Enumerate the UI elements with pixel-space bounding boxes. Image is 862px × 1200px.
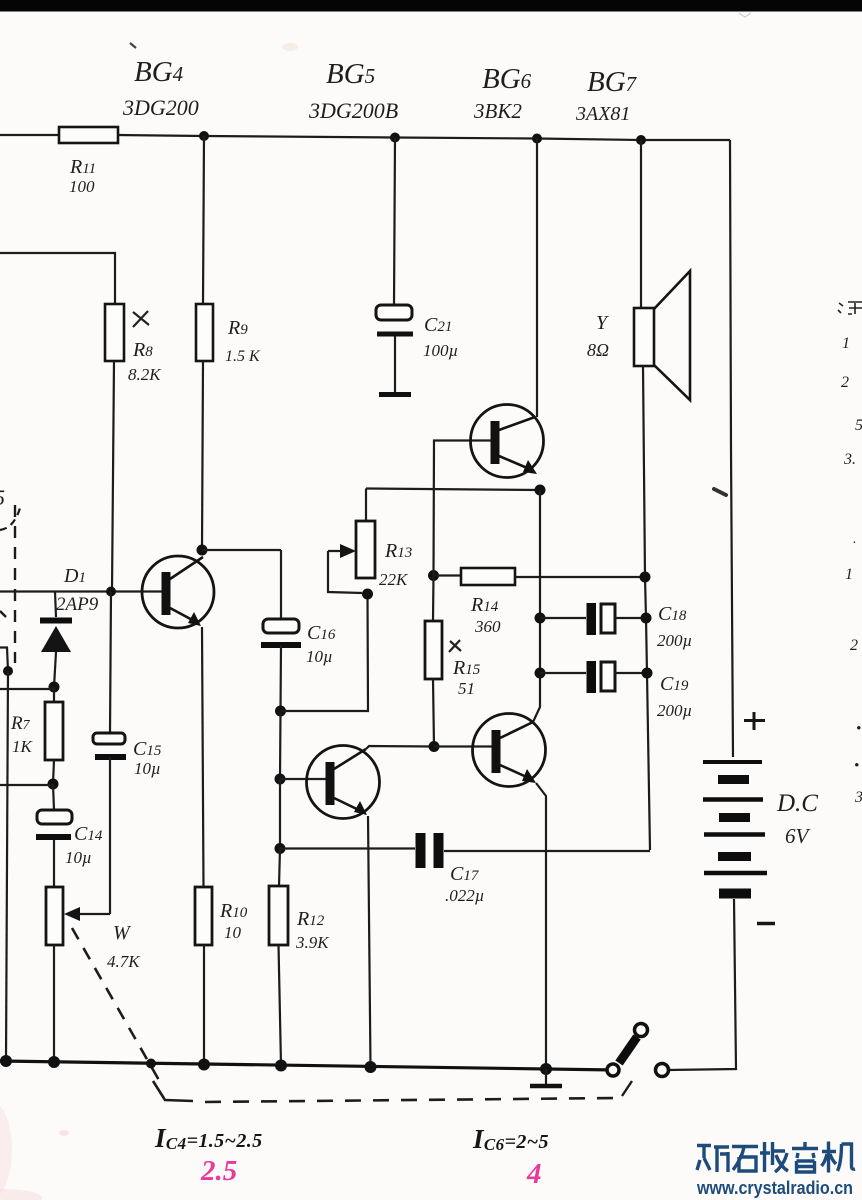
wire: +V top rail from R11 to right corner bbox=[118, 135, 730, 140]
label Y (speaker) bbox=[596, 312, 609, 334]
battery + sign bbox=[744, 712, 765, 730]
svg-text:2: 2 bbox=[850, 637, 858, 654]
resistor R11 bbox=[59, 127, 118, 143]
svg-text:www.crystalradio.cn: www.crystalradio.cn bbox=[696, 1177, 853, 1198]
value label 8 ohm (speaker) bbox=[587, 340, 609, 360]
value label 360 (R14) bbox=[474, 617, 501, 636]
value label 3DG200 (BG4) bbox=[122, 95, 199, 120]
node: left-edge junction bbox=[3, 666, 13, 676]
capacitor C18 bbox=[587, 603, 616, 635]
node: rail junction at BG6 collector bbox=[532, 134, 542, 144]
node: bus junction small bbox=[146, 1059, 156, 1069]
svg-text:1K: 1K bbox=[12, 737, 34, 756]
svg-text:5: 5 bbox=[855, 417, 862, 434]
node: C18 left junction bbox=[535, 613, 546, 624]
wire: D1 cathode drop from base wire bbox=[55, 592, 56, 618]
label R13 bbox=[384, 540, 412, 562]
node: C18 right junction on output line bbox=[641, 613, 652, 624]
svg-text:3AX81: 3AX81 bbox=[575, 103, 630, 125]
wire: C17 right wire to output node bbox=[444, 850, 650, 852]
wire: BG4 base wire from left edge bbox=[0, 590, 163, 592]
wire: C14 top stem bbox=[53, 784, 54, 810]
svg-text:2: 2 bbox=[841, 374, 849, 391]
svg-text:10: 10 bbox=[224, 923, 242, 942]
node: C19 left junction bbox=[535, 668, 546, 679]
svg-text:100: 100 bbox=[69, 177, 95, 196]
svg-text:8.2K: 8.2K bbox=[128, 365, 162, 384]
potentiometer W bbox=[46, 887, 63, 945]
logo char shou bbox=[760, 1142, 788, 1172]
svg-text:3DG200B: 3DG200B bbox=[308, 98, 398, 123]
node: R14/speaker output junction bbox=[640, 572, 651, 583]
node: rail junction at C21 bbox=[390, 133, 400, 143]
value label 2AP9 (D1) bbox=[56, 594, 99, 615]
label C14 bbox=[74, 823, 103, 845]
value label 8.2K (R8) bbox=[128, 365, 162, 384]
stray scan tick top bbox=[130, 43, 136, 48]
label R12 bbox=[296, 908, 325, 930]
wire: R12 top stem bbox=[279, 779, 281, 848]
annotation pink 4 bbox=[526, 1158, 542, 1190]
svg-text:6V: 6V bbox=[785, 824, 811, 848]
value label 200u (C18) bbox=[657, 631, 692, 650]
wire: D1 anode to R7 node bbox=[54, 652, 56, 687]
wire: BG5 base wire bbox=[280, 778, 327, 780]
wire: left edge corner down (clipped stage) bbox=[0, 648, 8, 672]
resistor R12 bbox=[269, 886, 288, 945]
svg-text:3BK2: 3BK2 bbox=[473, 99, 522, 123]
capacitor C17 bbox=[416, 833, 444, 868]
logo char shi bbox=[732, 1147, 758, 1172]
svg-text:1: 1 bbox=[845, 566, 853, 583]
dashed gang link: tick at switch bbox=[622, 1081, 632, 1096]
faint notch under top bar bbox=[739, 13, 751, 17]
value label 22K (R13) bbox=[379, 570, 409, 589]
wire: W bottom to ground bus bbox=[53, 945, 55, 1062]
node: BG7 base junction bbox=[429, 741, 440, 752]
svg-text:200µ: 200µ bbox=[657, 631, 692, 650]
wire: R9 bottom down to BG4 collector node bbox=[202, 361, 203, 550]
resistor R15 bbox=[425, 621, 442, 679]
potentiometer R13 bbox=[356, 521, 375, 578]
label D.C (battery) bbox=[776, 790, 818, 817]
node: rail junction at speaker bbox=[636, 135, 646, 145]
wire: R12 stem to box bbox=[279, 849, 280, 887]
value label 3DG200B (BG5) bbox=[308, 98, 398, 123]
label R8 bbox=[132, 339, 153, 361]
capacitor C16 bbox=[261, 619, 301, 645]
resistor R14 bbox=[434, 568, 516, 585]
value label 10u (C14) bbox=[65, 848, 92, 867]
pink scan wash bottom left bbox=[0, 43, 298, 1200]
wire: second stage bias wire to R8 bbox=[0, 253, 115, 304]
label C19 bbox=[660, 673, 689, 695]
wire: BG6 emitter node down to BG7 collector bbox=[533, 490, 540, 722]
label C15 bbox=[133, 738, 162, 760]
dashed gang link from W wiper bbox=[72, 928, 160, 1082]
logo char ji bbox=[822, 1142, 856, 1173]
wire: BG6 base riser bbox=[434, 441, 493, 576]
value label 3BK2 (BG6) bbox=[473, 99, 522, 123]
value label 100u (C21) bbox=[423, 341, 458, 360]
label BG4 bbox=[134, 56, 184, 88]
annotation pink 2.5 bbox=[200, 1155, 237, 1187]
node: C16/R13 feedback junction bbox=[275, 706, 286, 717]
value label 10u (C15) bbox=[134, 759, 161, 778]
node: R13 bottom junction bbox=[362, 589, 373, 600]
value label 51 (R15) bbox=[458, 679, 475, 698]
wire: battery minus stem to switch bbox=[668, 899, 736, 1070]
label BG5 bbox=[326, 58, 375, 90]
label R7 bbox=[10, 713, 31, 734]
node: bus junction W bbox=[48, 1056, 60, 1068]
label R9 bbox=[227, 317, 248, 339]
svg-text:4: 4 bbox=[526, 1158, 542, 1190]
svg-text:5: 5 bbox=[0, 485, 5, 510]
value label 1.5K (R9) bbox=[225, 348, 261, 365]
wire: feedback top wire into R13 bbox=[366, 489, 540, 491]
wire: C19 left wire bbox=[540, 672, 586, 674]
left-edge clipped emitter tick bbox=[0, 611, 6, 617]
svg-text:3: 3 bbox=[854, 789, 862, 806]
annotation x mark at R8 bbox=[133, 311, 149, 327]
wire: left edge into R7/C14 node bbox=[0, 784, 53, 786]
svg-text:W: W bbox=[113, 922, 132, 944]
svg-text:360: 360 bbox=[474, 617, 501, 636]
capacitor C19 bbox=[587, 661, 616, 693]
node: BG6 base / R14 / R15 junction bbox=[428, 570, 439, 581]
wire: R15 bottom to BG7 base node bbox=[433, 679, 434, 747]
resistor R9 bbox=[196, 304, 213, 361]
wire: BG7 emitter to ground bus bbox=[536, 783, 546, 1068]
label C16 bbox=[307, 622, 336, 644]
resistor R7 bbox=[45, 702, 63, 760]
label BG6 bbox=[482, 63, 532, 95]
svg-text:1: 1 bbox=[842, 335, 850, 352]
label R10 bbox=[219, 900, 248, 922]
svg-text:3.: 3. bbox=[843, 451, 856, 468]
wire: C17 left wire bbox=[280, 847, 415, 849]
wire: C16 bottom to feedback node bbox=[279, 645, 282, 711]
label R15 bbox=[452, 657, 481, 679]
value label 4.7K (W) bbox=[107, 952, 141, 971]
node: BG4 collector junction bbox=[197, 545, 208, 556]
diode D1 bbox=[40, 621, 72, 653]
wire: speaker bottom down through C18/C19 junctions bbox=[643, 366, 650, 850]
label R11 bbox=[69, 156, 96, 178]
node: C19 right junction on output line bbox=[642, 668, 653, 679]
wire: R7 bottom to C14 node bbox=[53, 760, 54, 784]
right-edge clipped margin notes bbox=[838, 302, 862, 806]
resistor R10 bbox=[195, 887, 212, 945]
node: bus junction R10 bbox=[198, 1059, 210, 1071]
svg-text:2AP9: 2AP9 bbox=[56, 594, 99, 615]
wire: BG5 collector to BG7 base node bbox=[366, 746, 434, 749]
wiper arrow of W bbox=[64, 907, 110, 921]
wire: BG6 collector riser to rail bbox=[536, 139, 538, 418]
value label 100 (R11) bbox=[69, 177, 95, 196]
wire: BG4 collector node to C16 bbox=[202, 549, 281, 551]
wire: R7 top stem bbox=[53, 687, 55, 702]
transistor BG6 bbox=[471, 405, 544, 478]
wire: C15 bottom down and left to W wiper bbox=[109, 757, 111, 914]
value label 10u (C16) bbox=[306, 647, 333, 666]
wire: C18 left wire bbox=[540, 617, 586, 619]
wire: C21 stem from rail bbox=[394, 138, 395, 306]
wire: speaker line from rail bbox=[640, 140, 642, 308]
wire: R10 bottom to ground bus bbox=[203, 945, 205, 1064]
value label 3AX81 (BG7) bbox=[575, 103, 630, 125]
node: BG5 base junction bbox=[275, 774, 286, 785]
capacitor C15 bbox=[93, 733, 126, 757]
wire: rail corner down right side to battery + bbox=[730, 140, 733, 757]
stray scan mark upper right bbox=[714, 489, 726, 495]
dashed gang link: hook under bus bbox=[153, 1081, 193, 1101]
wire: ground bus bbox=[0, 1061, 616, 1070]
svg-text:10µ: 10µ bbox=[306, 647, 333, 666]
svg-text:3.9K: 3.9K bbox=[295, 933, 330, 952]
svg-text:Y: Y bbox=[596, 312, 609, 334]
node: R7/C14 junction bbox=[48, 779, 59, 790]
node: rail junction at R9 bbox=[199, 131, 209, 141]
annotation Ic4 = 1.5~2.5 bbox=[154, 1123, 263, 1153]
svg-text:200µ: 200µ bbox=[657, 701, 692, 720]
scanner black top bar bbox=[0, 0, 862, 12]
value label 200u (C19) bbox=[657, 701, 692, 720]
label D1 bbox=[63, 565, 86, 587]
resistor R8 bbox=[105, 304, 124, 361]
value label 3.9K (R12) bbox=[295, 933, 330, 952]
node: BG4 base junction bbox=[106, 587, 116, 597]
wire: C16 top stem bbox=[280, 550, 282, 619]
value label 6V (battery) bbox=[785, 824, 811, 848]
transistor BG4 bbox=[142, 556, 214, 628]
annotation x mark at R15 bbox=[449, 640, 461, 652]
battery B1 (D.C 6V) bbox=[703, 762, 767, 894]
dashed AGC line (left, clipped) bbox=[14, 505, 16, 663]
wire: BG5 base stem bbox=[279, 711, 282, 779]
value label 10 (R10) bbox=[224, 923, 242, 942]
ground symbol bbox=[530, 1069, 562, 1086]
transistor BG5 bbox=[307, 746, 380, 819]
node: bus junction R12 bbox=[275, 1060, 287, 1072]
wire: R13 top stem bbox=[365, 489, 367, 522]
capacitor C14 bbox=[36, 810, 72, 837]
watermark url www.crystalradio.cn bbox=[696, 1177, 853, 1198]
label W bbox=[113, 922, 132, 944]
svg-text:.: . bbox=[853, 532, 857, 547]
svg-text:51: 51 bbox=[458, 679, 475, 698]
node: bus junction BG7 emitter bbox=[540, 1063, 552, 1075]
logo char yin bbox=[792, 1142, 818, 1172]
svg-text:10µ: 10µ bbox=[65, 848, 92, 867]
dashed gang link: horizontal run to switch bbox=[205, 1098, 618, 1102]
logo char kuang bbox=[697, 1146, 729, 1173]
wire: C14 bottom to W pot bbox=[53, 840, 55, 887]
switch S (power) bbox=[607, 1024, 669, 1077]
label R14 bbox=[470, 594, 499, 616]
svg-text:4.7K: 4.7K bbox=[107, 952, 141, 971]
node: bus junction BG5 emitter bbox=[365, 1061, 377, 1073]
wire: R9 top from rail bbox=[203, 136, 204, 304]
wire: C19 right wire to output line bbox=[615, 672, 647, 674]
svg-text:•: • bbox=[854, 758, 859, 774]
label C17 bbox=[450, 863, 480, 885]
node: bus junction left edge bbox=[0, 1055, 12, 1067]
capacitor C21 bbox=[376, 305, 413, 395]
annotation Ic6 = 2~5 bbox=[472, 1124, 549, 1154]
wire: left feed into R11 bbox=[0, 134, 59, 136]
wire: R8 bottom down to BG4 base node bbox=[112, 361, 114, 591]
svg-text:.022µ: .022µ bbox=[445, 886, 485, 905]
svg-text:•: • bbox=[856, 721, 861, 737]
node: BG6 emitter junction bbox=[535, 485, 546, 496]
wire: R14 right to output node bbox=[515, 576, 645, 578]
svg-text:8Ω: 8Ω bbox=[587, 340, 609, 360]
svg-text:100µ: 100µ bbox=[423, 341, 458, 360]
svg-text:22K: 22K bbox=[379, 570, 409, 589]
value label .022u (C17) bbox=[445, 886, 485, 905]
node: R12/C17 junction bbox=[275, 843, 286, 854]
speaker Y bbox=[634, 271, 690, 400]
label C21 bbox=[424, 314, 452, 336]
wire: BG5 emitter to ground bus bbox=[368, 816, 371, 1066]
wiper arrow of R13 bbox=[328, 544, 362, 593]
wire: R15 top stem bbox=[432, 576, 435, 622]
svg-text:10µ: 10µ bbox=[134, 759, 161, 778]
svg-text:3DG200: 3DG200 bbox=[122, 95, 199, 120]
wire: BG7 base wire bbox=[434, 745, 493, 747]
wire: BG4 emitter down to R10 bbox=[202, 627, 204, 887]
left-edge clipped label 5 bbox=[0, 485, 5, 510]
battery - sign bbox=[757, 922, 775, 926]
value label 1K (R7) bbox=[12, 737, 34, 756]
wire: left edge into D1/R7 node bbox=[0, 688, 54, 690]
watermark logo: crystalradio.cn bbox=[697, 1142, 855, 1173]
wire: left-edge line down to ground bus bbox=[6, 671, 8, 1060]
svg-text:2.5: 2.5 bbox=[200, 1155, 237, 1187]
transistor BG7 bbox=[473, 714, 546, 787]
wire: C18 right wire to output line bbox=[615, 617, 646, 619]
svg-text:1.5 K: 1.5 K bbox=[225, 348, 261, 365]
svg-text:D.C: D.C bbox=[776, 790, 818, 817]
left-edge clipped wire arc bbox=[0, 508, 20, 530]
label BG7 bbox=[587, 66, 638, 98]
node: D1/R7 junction bbox=[49, 682, 60, 693]
wire: feedback node to R13 bottom bbox=[281, 594, 369, 711]
wire: R12 bottom to ground bus bbox=[279, 945, 282, 1065]
wire: C15 stem from BG4 base node bbox=[110, 592, 111, 734]
label C18 bbox=[658, 603, 687, 625]
